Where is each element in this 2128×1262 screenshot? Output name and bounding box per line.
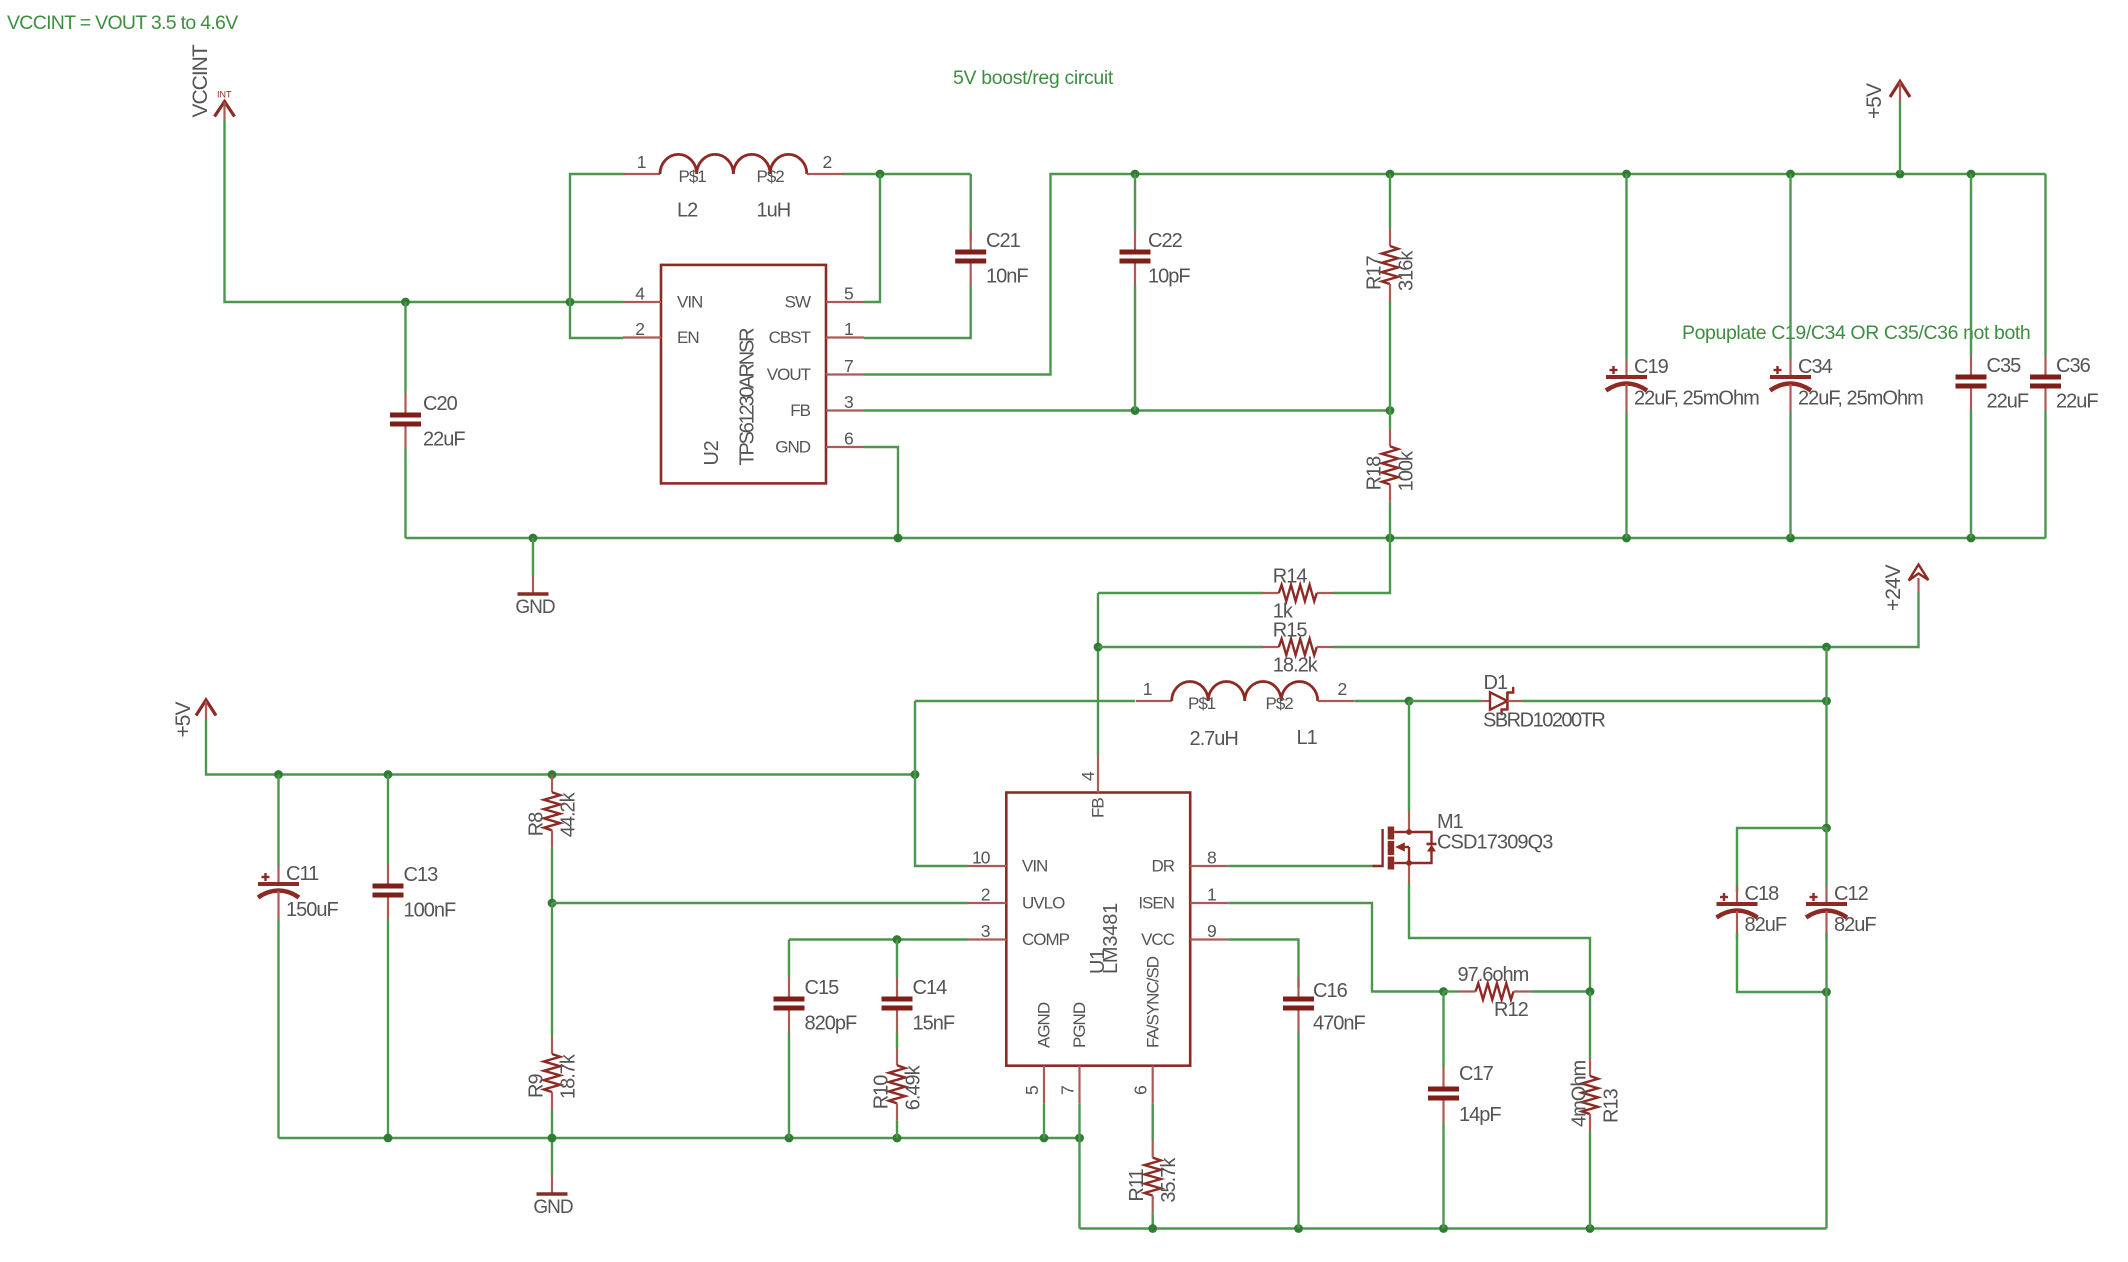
capacitor C17: [1428, 992, 1501, 1229]
svg-text:22uF, 25mOhm: 22uF, 25mOhm: [1798, 388, 1923, 410]
capacitor C15: [774, 940, 857, 1139]
junction lower rail / R11: [1148, 1224, 1157, 1233]
junction R8 R9 UVLO: [548, 899, 557, 908]
inductor L1: [1136, 679, 1355, 750]
U1 pin 6 FA/SYNC/SD: [1131, 956, 1163, 1104]
resistor R13: [1569, 992, 1623, 1229]
svg-text:R17: R17: [1364, 255, 1386, 290]
wire riser to L1 pin1 and U1 VIN: [915, 701, 968, 866]
svg-text:UVLO: UVLO: [1022, 894, 1065, 913]
junction D1 cathode / output riser: [1822, 697, 1831, 706]
svg-text:2: 2: [1338, 679, 1347, 699]
capacitor C35: [1956, 174, 2029, 538]
supply VCCINT: [189, 44, 235, 119]
junction FB / C22: [1131, 406, 1140, 415]
svg-text:C11: C11: [286, 863, 319, 885]
svg-text:SW: SW: [785, 293, 811, 312]
svg-text:1: 1: [1207, 885, 1216, 905]
svg-text:R9: R9: [526, 1074, 548, 1098]
svg-text:D1: D1: [1484, 672, 1508, 694]
svg-text:L2: L2: [677, 200, 698, 222]
wire VCCINT to U2 VIN: [225, 120, 624, 303]
U1 pin 10 VIN: [968, 848, 1047, 876]
junction +5V rail / C13: [384, 770, 393, 779]
svg-text:7: 7: [844, 356, 853, 376]
svg-text:+5V: +5V: [172, 702, 195, 738]
junction FB / R14 / R15: [1094, 643, 1103, 652]
transistor M1 CSD17309Q3: [1372, 811, 1553, 884]
resistor R11: [1126, 1140, 1180, 1228]
svg-text:18.2k: 18.2k: [1273, 655, 1319, 677]
svg-text:R8: R8: [526, 812, 548, 836]
IC U1 LM3481: [1006, 793, 1190, 1066]
capacitor C11: [258, 775, 338, 922]
U1 pin 1 ISEN: [1138, 885, 1228, 913]
wire +5V supply drop: [1899, 102, 1901, 175]
svg-text:316k: 316k: [1396, 250, 1418, 291]
wire PGND to lower rail: [1078, 1104, 1080, 1229]
svg-text:C15: C15: [805, 977, 840, 999]
svg-text:4: 4: [635, 284, 645, 304]
resistor R8: [526, 775, 580, 848]
junction ground rail / C35: [1967, 534, 1976, 543]
wire U1 ISEN net: [1228, 903, 1443, 992]
svg-text:82uF: 82uF: [1745, 914, 1787, 936]
diode D1 SBRD10200TR: [1481, 672, 1605, 732]
U1 pin 5 AGND: [1022, 1002, 1054, 1104]
svg-text:3: 3: [981, 921, 990, 941]
svg-text:2: 2: [823, 152, 832, 172]
wire U2 VOUT to +5V rail: [864, 174, 2046, 375]
svg-text:L1: L1: [1297, 727, 1318, 749]
wire output riser to lower rail: [1825, 992, 1827, 1229]
wire SW riser to U2 SW pin: [864, 174, 880, 302]
junction +5V rail / C22: [1131, 170, 1140, 179]
svg-text:10pF: 10pF: [1148, 266, 1190, 288]
svg-text:C20: C20: [423, 393, 458, 415]
wire R15 right to +24V: [1334, 593, 1919, 648]
svg-text:C18: C18: [1745, 883, 1780, 905]
svg-text:5: 5: [1022, 1086, 1042, 1095]
wire C12 bottom: [1825, 933, 1827, 992]
svg-text:R12: R12: [1494, 999, 1529, 1021]
svg-text:+5V: +5V: [1863, 83, 1886, 119]
svg-text:VCCINT: VCCINT: [189, 44, 212, 117]
svg-text:R15: R15: [1273, 620, 1308, 642]
svg-text:2: 2: [635, 319, 644, 339]
svg-text:5V boost/reg circuit: 5V boost/reg circuit: [953, 67, 1114, 89]
U1 pin 2 UVLO: [968, 885, 1065, 913]
svg-text:2: 2: [981, 885, 990, 905]
wire FA/SYNC/SD to R11: [1151, 1104, 1153, 1141]
svg-text:10: 10: [972, 848, 991, 868]
junction lower rail / C16: [1294, 1224, 1303, 1233]
svg-text:C16: C16: [1313, 980, 1348, 1002]
U1 pin 8 DR: [1151, 848, 1228, 876]
wire R14 left: [1098, 592, 1263, 594]
svg-text:150uF: 150uF: [286, 899, 338, 921]
svg-text:2.7uH: 2.7uH: [1190, 728, 1238, 750]
wire to R12 left: [1444, 990, 1459, 992]
resistor R10: [871, 1048, 925, 1138]
capacitor C34: [1770, 174, 1923, 538]
capacitor C12: [1806, 883, 1876, 940]
wire U1 DR to M1 gate: [1228, 865, 1372, 867]
svg-text:P$1: P$1: [1188, 694, 1216, 713]
ground GND (bottom): [533, 1138, 573, 1218]
junction VCCINT / C20: [401, 298, 410, 307]
junction ground rail / U2 GND drop: [894, 534, 903, 543]
wire lower rail: [1080, 1227, 1827, 1229]
wire UVLO net: [552, 902, 968, 904]
junction +5V rail / C11: [274, 770, 283, 779]
svg-text:FA/SYNC/SD: FA/SYNC/SD: [1144, 956, 1163, 1048]
capacitor C13: [373, 775, 456, 1139]
svg-text:TPS61230ARNSR: TPS61230ARNSR: [737, 328, 759, 466]
svg-text:9: 9: [1207, 921, 1216, 941]
capacitor C14: [882, 940, 955, 1049]
resistor R17: [1364, 174, 1418, 411]
supply +24V: [1882, 564, 1928, 611]
svg-text:P$2: P$2: [1266, 694, 1294, 713]
U2 pin 2 EN: [623, 319, 699, 347]
junction SW riser: [876, 170, 885, 179]
svg-text:5: 5: [844, 284, 853, 304]
svg-text:R18: R18: [1364, 456, 1386, 491]
resistor R18: [1364, 411, 1418, 539]
wire C21 bottom to U2 CBST: [864, 286, 971, 339]
junction COMP / C14: [893, 935, 902, 944]
svg-text:1: 1: [1143, 679, 1152, 699]
capacitor C36: [2030, 174, 2098, 538]
svg-text:35.7k: 35.7k: [1158, 1157, 1180, 1203]
svg-text:C14: C14: [913, 977, 948, 999]
svg-text:GND: GND: [775, 438, 811, 457]
wire R15 left: [1098, 646, 1263, 648]
U1 pin 4 FB: [1078, 755, 1108, 819]
junction ground rail / C19: [1622, 534, 1631, 543]
svg-text:CBST: CBST: [769, 328, 811, 347]
U1 pin 9 VCC: [1141, 921, 1228, 949]
wire M1 drain to D1 node: [1408, 701, 1410, 812]
svg-text:6.49k: 6.49k: [903, 1064, 925, 1110]
svg-text:6: 6: [844, 429, 853, 449]
svg-text:C22: C22: [1148, 230, 1183, 252]
svg-text:R10: R10: [871, 1075, 893, 1110]
svg-text:EN: EN: [677, 328, 699, 347]
junction FB / R17 R18: [1386, 406, 1395, 415]
capacitor C22: [1120, 174, 1191, 411]
capacitor C18: [1717, 883, 1787, 940]
junction gnd rail / U1 AGND: [1040, 1134, 1049, 1143]
svg-text:AGND: AGND: [1035, 1002, 1054, 1048]
svg-text:470nF: 470nF: [1313, 1013, 1365, 1035]
wire output riser upper: [1825, 647, 1827, 828]
svg-text:8: 8: [1207, 848, 1216, 868]
capacitor C19: [1606, 174, 1759, 538]
svg-text:4mOhm: 4mOhm: [1569, 1061, 1591, 1127]
svg-text:FB: FB: [790, 401, 810, 420]
junction ground rail / R18: [1386, 534, 1395, 543]
svg-text:VIN: VIN: [1022, 857, 1047, 876]
junction VCCINT / EN riser: [566, 298, 575, 307]
svg-text:C34: C34: [1798, 356, 1833, 378]
svg-text:R11: R11: [1126, 1169, 1148, 1202]
wire AGND to rail: [1043, 1104, 1045, 1138]
svg-text:15nF: 15nF: [913, 1013, 955, 1035]
svg-text:C21: C21: [986, 230, 1021, 252]
svg-text:U2: U2: [701, 440, 723, 465]
junction ISEN / C17 / R12: [1439, 987, 1448, 996]
capacitor C20: [390, 302, 465, 538]
junction output riser / C18 branch bottom: [1822, 988, 1831, 997]
U2 pin 7 VOUT: [767, 356, 864, 384]
wire analog ground rail: [279, 1137, 1080, 1139]
junction L1 / D1 / M1 drain: [1405, 697, 1414, 706]
U1 pin 7 PGND: [1058, 1002, 1090, 1104]
svg-text:GND: GND: [533, 1197, 573, 1218]
svg-text:INT: INT: [217, 90, 232, 100]
wire U2 FB net: [864, 409, 1390, 411]
wire U1 VCC to C16: [1228, 940, 1298, 988]
junction +5V rail / L1-VIN riser: [911, 770, 920, 779]
wire D1 anode: [1409, 700, 1481, 702]
resistor R9: [526, 903, 580, 1138]
svg-text:R14: R14: [1273, 566, 1308, 588]
supply +5V (top right): [1863, 82, 1910, 120]
supply +5V (bottom left): [172, 700, 216, 738]
svg-text:VOUT: VOUT: [767, 365, 811, 384]
svg-text:1: 1: [637, 152, 646, 172]
capacitor C21: [955, 230, 1028, 288]
ground GND (top): [515, 538, 555, 618]
svg-text:10nF: 10nF: [986, 266, 1028, 288]
U2 pin 1 CBST: [769, 319, 864, 347]
wire R14 right to ground rail: [1334, 538, 1391, 593]
svg-text:P$2: P$2: [757, 167, 785, 186]
svg-text:820pF: 820pF: [805, 1013, 857, 1035]
svg-text:100k: 100k: [1396, 450, 1418, 491]
wire C18 branch top: [1737, 828, 1827, 892]
svg-text:3: 3: [844, 392, 853, 412]
wire C11 bottom: [277, 920, 279, 1139]
svg-text:+24V: +24V: [1882, 564, 1905, 611]
svg-text:22uF: 22uF: [1987, 391, 2029, 413]
junction gnd rail / R9 GND: [548, 1134, 557, 1143]
junction +5V rail / C35: [1967, 170, 1976, 179]
svg-text:82uF: 82uF: [1834, 914, 1876, 936]
junction +5V rail / R17: [1386, 170, 1395, 179]
svg-text:97.6ohm: 97.6ohm: [1458, 964, 1529, 986]
junction ground rail / GND symbol: [529, 534, 538, 543]
svg-text:C36: C36: [2056, 355, 2091, 377]
svg-text:22uF: 22uF: [423, 429, 465, 451]
svg-text:PGND: PGND: [1070, 1002, 1089, 1048]
svg-text:P$1: P$1: [679, 167, 707, 186]
svg-text:44.2k: 44.2k: [558, 791, 580, 837]
U2 pin 4 VIN: [623, 284, 702, 312]
svg-text:C35: C35: [1987, 355, 2022, 377]
junction lower rail / C17: [1439, 1224, 1448, 1233]
junction +5V rail / C19: [1622, 170, 1631, 179]
svg-text:C19: C19: [1634, 356, 1669, 378]
svg-text:7: 7: [1058, 1086, 1078, 1095]
wire COMP net: [789, 938, 968, 940]
junction +5V rail / +5V supply: [1896, 170, 1905, 179]
svg-text:100nF: 100nF: [404, 900, 456, 922]
resistor R14: [1261, 566, 1334, 623]
wire M1 source to sense node: [1409, 884, 1590, 992]
svg-text:C17: C17: [1459, 1063, 1494, 1085]
junction +5V rail / R8: [548, 770, 557, 779]
svg-text:Popuplate C19/C34 OR C35/C36 n: Popuplate C19/C34 OR C35/C36 not both: [1682, 322, 2030, 344]
svg-text:1: 1: [844, 319, 853, 339]
svg-text:LM3481: LM3481: [1100, 903, 1122, 974]
junction R12 / R13 / M1 source: [1586, 987, 1595, 996]
svg-text:VIN: VIN: [677, 293, 702, 312]
U1 pin 3 COMP: [968, 921, 1070, 949]
wire C18 branch bottom: [1737, 933, 1827, 992]
U2 pin 5 SW: [785, 284, 864, 312]
wire top circuit ground rail: [406, 537, 2046, 539]
wire L2 pin1 / U2 EN: [570, 174, 625, 338]
junction ground rail / C34: [1786, 534, 1795, 543]
junction gnd rail / R10: [893, 1134, 902, 1143]
U2 pin 3 FB: [790, 392, 864, 420]
resistor R12: [1458, 964, 1532, 1021]
svg-text:R13: R13: [1601, 1088, 1623, 1123]
junction lower rail / R13: [1586, 1224, 1595, 1233]
svg-text:14pF: 14pF: [1459, 1104, 1501, 1126]
svg-text:18.7k: 18.7k: [558, 1053, 580, 1099]
U2 pin 6 GND: [775, 429, 864, 457]
svg-text:4: 4: [1078, 771, 1098, 781]
svg-text:C12: C12: [1834, 883, 1869, 905]
wire to L1 pin 1: [915, 700, 1135, 702]
junction +5V rail / C34: [1786, 170, 1795, 179]
svg-text:DR: DR: [1151, 857, 1174, 876]
svg-text:6: 6: [1131, 1086, 1151, 1095]
svg-text:VCCINT = VOUT 3.5 to 4.6V: VCCINT = VOUT 3.5 to 4.6V: [7, 12, 238, 34]
svg-text:ISEN: ISEN: [1138, 894, 1174, 913]
wire FB riser: [1097, 593, 1099, 755]
wire R12 right: [1531, 990, 1590, 992]
svg-text:C13: C13: [404, 864, 439, 886]
svg-text:COMP: COMP: [1022, 930, 1070, 949]
junction R15 net / output riser: [1822, 643, 1831, 652]
svg-text:VCC: VCC: [1141, 930, 1175, 949]
svg-text:SBRD10200TR: SBRD10200TR: [1483, 710, 1605, 732]
svg-text:FB: FB: [1089, 798, 1108, 818]
svg-text:M1: M1: [1437, 811, 1464, 833]
junction gnd rail / C15: [785, 1134, 794, 1143]
wire L2 pin2 to C21 (net SW): [843, 173, 971, 175]
junction gnd rail / U1 PGND: [1075, 1134, 1084, 1143]
svg-text:1uH: 1uH: [757, 200, 791, 222]
svg-text:CSD17309Q3: CSD17309Q3: [1437, 832, 1553, 854]
wire R8 to UVLO node: [551, 848, 553, 903]
svg-text:22uF: 22uF: [2056, 391, 2098, 413]
wire +5V rail (bottom): [206, 720, 915, 775]
junction gnd rail / C13: [384, 1134, 393, 1143]
resistor R15: [1261, 620, 1334, 677]
wire C21 top: [970, 174, 972, 241]
wire C12 top: [1825, 828, 1827, 886]
svg-text:22uF, 25mOhm: 22uF, 25mOhm: [1634, 388, 1759, 410]
capacitor C16: [1283, 978, 1365, 1229]
junction output riser / C18 branch top: [1822, 824, 1831, 833]
IC U2 TPS61230ARNSR: [661, 265, 826, 484]
inductor L2: [624, 152, 844, 222]
wire D1 cathode to output: [1522, 700, 1827, 702]
wire U2 GND pin drop: [864, 447, 898, 538]
wire L1 pin2 to D1 node: [1355, 700, 1409, 702]
svg-text:GND: GND: [515, 597, 555, 618]
